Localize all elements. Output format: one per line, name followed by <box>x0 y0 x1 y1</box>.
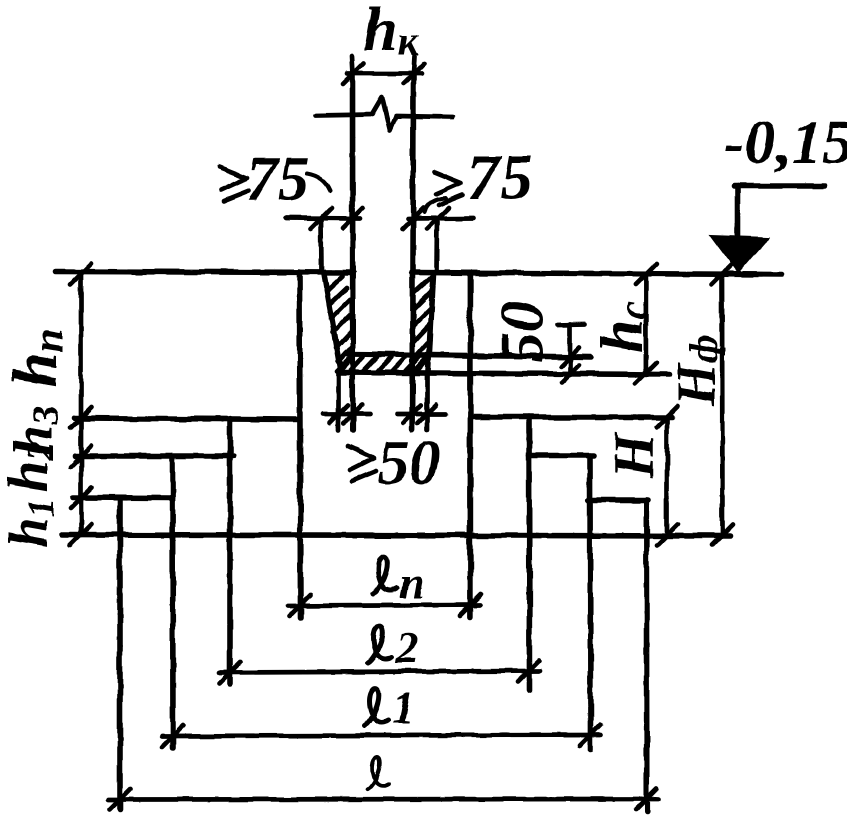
ticks 50 <box>561 348 579 383</box>
leader curl right <box>424 198 446 212</box>
pedestal outer wall right <box>468 273 474 617</box>
dimension line h-chain <box>79 274 84 536</box>
step 2 top surface right <box>529 453 594 459</box>
svg-text:п: п <box>399 557 425 608</box>
label l2 <box>368 626 392 663</box>
svg-text:75: 75 <box>467 141 533 214</box>
elevation mark triangle <box>711 236 768 273</box>
step 1 top surface right + extension to H dim line <box>470 414 672 420</box>
dimension line 50 vertical <box>568 325 573 376</box>
dimension line H <box>665 417 670 535</box>
extension line socket wall bottom right <box>425 373 430 430</box>
ground line right (top of foundation, right of column) <box>412 273 782 275</box>
leader curl left <box>307 174 330 191</box>
step 1 top surface + extension to left dim line <box>75 418 300 420</box>
dimension line l <box>108 797 658 802</box>
ticks hk <box>343 63 425 84</box>
ticks l2 <box>220 661 540 684</box>
ticks hc <box>635 264 656 384</box>
dimension line l2 <box>219 671 540 673</box>
ticks l1 <box>163 725 601 747</box>
foundation base line <box>63 535 730 537</box>
label l1 <box>364 689 388 726</box>
socket inner wall right (tapered) <box>428 274 433 371</box>
dimension line >=50 left <box>324 412 372 417</box>
label l <box>368 758 388 789</box>
ticks >=75 <box>311 208 449 230</box>
dimension line >=75 left <box>286 216 360 221</box>
pedestal outer wall left <box>300 272 301 618</box>
step 2 riser left <box>170 456 176 748</box>
svg-text:h1: h1 <box>0 498 62 548</box>
step 1 riser right <box>526 417 532 690</box>
extension line socket wall top left <box>319 218 324 272</box>
column right edge <box>410 74 416 431</box>
svg-text:H: H <box>603 432 666 479</box>
dimension line >=50 right <box>398 412 446 417</box>
step 2 riser right <box>587 456 593 751</box>
svg-text:1: 1 <box>392 682 415 733</box>
svg-text:2: 2 <box>395 622 419 673</box>
>= symbol left <box>219 167 249 201</box>
step 3 top surface right <box>589 497 648 503</box>
>= symbol bottom <box>348 446 376 481</box>
svg-text:50: 50 <box>489 301 557 363</box>
column bottom + extension right for 50 dim <box>346 354 590 357</box>
label lp <box>373 557 397 594</box>
ticks Hf <box>712 264 734 546</box>
extension line socket wall top right <box>435 218 440 272</box>
extension line socket wall bottom left <box>336 373 341 430</box>
ticks h-chain <box>71 264 92 546</box>
step 2 top surface left + extension <box>75 453 233 459</box>
svg-text:Hф: Hф <box>665 335 726 407</box>
dimension line >=75 right <box>408 216 473 221</box>
step 3 riser left <box>117 498 123 810</box>
dimension line lp <box>288 605 480 606</box>
socket inner wall left (tapered) <box>324 274 341 371</box>
step 3 riser right <box>643 500 649 812</box>
svg-text:75: 75 <box>246 144 309 214</box>
ticks l <box>110 789 658 811</box>
hatch grout gap left of column <box>327 276 352 371</box>
hatch grout layer under column <box>337 357 428 372</box>
ticks lp <box>289 595 481 617</box>
hatch grout gap right of column <box>414 277 432 369</box>
socket floor line + extension right for hc dim <box>340 373 669 375</box>
elevation mark leader <box>735 186 741 239</box>
dimension line l1 <box>162 735 601 736</box>
column break line (zigzag) <box>316 97 453 130</box>
svg-text:hп: hп <box>2 329 72 387</box>
>= symbol right <box>434 172 463 205</box>
ticks H <box>657 407 678 546</box>
svg-text:50: 50 <box>378 429 440 497</box>
extension stubs above column corners <box>352 56 415 74</box>
column left edge (through break, socket, to ext. below) <box>350 74 356 431</box>
T-bar at top of 50 dimension line <box>557 322 584 327</box>
elevation mark shelf line <box>734 183 824 189</box>
ground line left (top of foundation, left of column) <box>55 272 353 273</box>
svg-text:-0,15: -0,15 <box>724 109 847 177</box>
dimension line hc <box>644 274 649 375</box>
dimension line Hf <box>720 274 725 535</box>
svg-text:hк: hк <box>363 0 420 65</box>
dimension line hk (column width) <box>347 71 422 76</box>
svg-text:hс: hс <box>589 301 657 353</box>
ticks >=50 <box>330 405 436 423</box>
step 1 riser left <box>227 419 233 684</box>
step 3 top surface left + extension <box>73 495 173 501</box>
